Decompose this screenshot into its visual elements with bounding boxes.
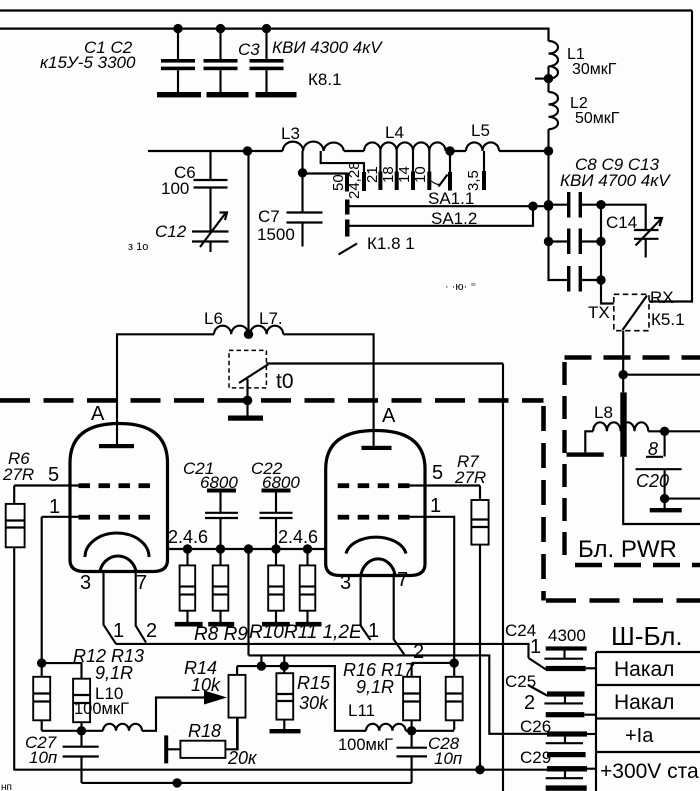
contact bar tap 18 [395, 172, 399, 191]
chassis dashed boundary vertical [541, 406, 546, 601]
tube V2 envelope [326, 431, 425, 576]
node C28 junction [407, 726, 416, 735]
svg-text:7: 7 [397, 569, 408, 591]
ground bar R15 [270, 729, 301, 733]
wire C24 feed diagonal [529, 658, 547, 670]
resistor R6 [6, 486, 25, 771]
svg-text:SA1.2: SA1.2 [431, 209, 477, 228]
tube V1 grid1 dashes [79, 515, 151, 520]
svg-text:6800: 6800 [200, 473, 238, 492]
contact bar tap 24,28 [362, 172, 366, 191]
wire SA1.1 line [347, 205, 549, 207]
node SA1.1 end [528, 202, 537, 211]
wire t0 down lead [246, 379, 248, 416]
ground bar L8 [567, 452, 604, 456]
node tank right junction [544, 146, 553, 155]
wire cathode down riser [247, 549, 249, 655]
contact bar SA1.2 [345, 220, 350, 237]
svg-text:К5.1: К5.1 [651, 310, 685, 329]
wire grid2 riser to R12R13 [41, 517, 43, 663]
svg-text:L4: L4 [385, 123, 404, 142]
svg-text:К1.8 1: К1.8 1 [367, 234, 415, 253]
wire L6 L7 riser [247, 151, 249, 334]
svg-text:R15: R15 [297, 673, 331, 693]
svg-text:RX: RX [650, 288, 674, 307]
svg-text:L8: L8 [594, 403, 613, 422]
svg-text:1500: 1500 [257, 225, 295, 244]
chassis dashed boundary bottom right [546, 598, 700, 603]
node cathode R10 [271, 544, 280, 553]
svg-text:10п: 10п [434, 749, 463, 768]
capacitor C28 [397, 731, 428, 783]
chassis dashed boundary horizontal [0, 398, 544, 403]
node L4 L5 junction [445, 146, 454, 155]
ground bar t0 [228, 416, 263, 421]
svg-text:27R: 27R [454, 468, 486, 487]
feedthrough capacitor C25 [544, 691, 584, 717]
svg-text:2: 2 [524, 692, 535, 714]
wire L3 to L4 [344, 150, 364, 152]
wire PWR top out [623, 374, 700, 376]
inductor L2 [549, 92, 559, 151]
capacitor C22 [260, 489, 293, 550]
contact bar tap 50 [345, 173, 349, 192]
capacitor C14 variable [634, 218, 662, 258]
resistor R14 [229, 666, 246, 749]
svg-text:Бл. PWR: Бл. PWR [578, 536, 677, 563]
wire R16 R17 top link [412, 662, 455, 664]
resistor R15 [276, 666, 293, 729]
node SA1.1 rail [544, 202, 553, 211]
svg-text:9,1R: 9,1R [356, 677, 394, 697]
svg-text:2.4.6: 2.4.6 [278, 527, 318, 547]
wire heater line 1 [116, 644, 529, 658]
wire plus300V bus [14, 769, 547, 771]
ground bar R11 [296, 622, 322, 627]
svg-text:ТХ: ТХ [588, 303, 610, 322]
svg-text:6800: 6800 [262, 473, 300, 492]
tube V1 heater arc [100, 556, 136, 571]
svg-text:50: 50 [330, 174, 347, 191]
svg-text:+300V ста: +300V ста [600, 760, 699, 783]
wire top bus line 1 [0, 9, 692, 11]
wire bias vertical x503 [502, 364, 504, 791]
wire cathode bus [166, 548, 326, 550]
node R7 bus [475, 765, 484, 774]
tube V2 grid2 dashes [338, 483, 410, 488]
svg-text:10п: 10п [29, 748, 58, 767]
svg-text:L6: L6 [204, 309, 223, 328]
node C9 right [596, 237, 605, 246]
node C9 left [544, 237, 553, 246]
contact bar tap 7 [448, 172, 452, 191]
node R17 top [450, 658, 459, 667]
node L6 L7 [244, 330, 253, 339]
svg-text:L3: L3 [281, 124, 300, 143]
wire R12 R13 top link [42, 663, 82, 679]
svg-text:24,28: 24,28 [346, 161, 363, 199]
svg-text:30мкГ: 30мкГ [572, 61, 617, 78]
svg-text:10k: 10k [191, 675, 221, 695]
wire right border down to RX [649, 11, 692, 302]
svg-text:С20: С20 [636, 471, 669, 491]
svg-text:Накал: Накал [614, 658, 674, 681]
feedthrough capacitor C26 [546, 731, 587, 757]
wire tap 50 riser and line [298, 151, 347, 178]
svg-text:Ш-Бл.: Ш-Бл. [611, 621, 683, 651]
thermal switch box t0 [229, 350, 266, 388]
svg-text:A: A [382, 405, 396, 427]
svg-text:L5: L5 [471, 121, 490, 140]
ground bar under C2 [207, 92, 249, 97]
transformer L8 core [620, 392, 626, 456]
contact bar tap 14 [411, 172, 415, 191]
wire tap 18 [396, 151, 398, 172]
svg-text:2: 2 [146, 620, 157, 642]
contact bar R18 [164, 735, 168, 763]
transformer L8 winding [593, 422, 648, 431]
node junction C1 [173, 24, 182, 33]
wire C20 out right [665, 498, 700, 500]
svg-text:R8 R9: R8 R9 [194, 624, 248, 645]
svg-text:к15У-5 3300: к15У-5 3300 [40, 53, 136, 72]
capacitor C20 [636, 431, 682, 498]
node junction C2 [216, 24, 225, 33]
switch arm K5.1 [623, 296, 648, 331]
resistor R10 [268, 549, 284, 622]
resistor R8 [180, 549, 196, 622]
svg-text:4300: 4300 [548, 626, 586, 645]
wire top bus line 2 [0, 29, 549, 41]
wire SA1.2 line [347, 206, 533, 226]
svg-text:100: 100 [161, 179, 189, 198]
tube V1 cathode arc [85, 533, 149, 557]
node ground bus [172, 778, 181, 787]
svg-text:50мкГ: 50мкГ [575, 110, 620, 127]
wiper arrow R14 [204, 691, 227, 705]
node L1 L2 tap [535, 66, 553, 92]
svg-text:1: 1 [368, 620, 379, 642]
svg-text:7: 7 [136, 572, 147, 594]
wire C26 to box3 [587, 733, 596, 735]
resistor R17 [446, 663, 463, 730]
wire C8 right rail [600, 205, 602, 280]
wire heater line 2 [249, 655, 548, 733]
wire tap 3,5 [483, 151, 485, 171]
resistor R16 [403, 663, 420, 731]
wire TX lead [601, 280, 614, 304]
svg-text:С12: С12 [155, 222, 187, 241]
resistor R11 [300, 549, 316, 622]
node cathode R8 [183, 544, 192, 553]
svg-text:27R: 27R [2, 465, 34, 484]
contact bar tap 3,5 [482, 171, 486, 190]
svg-text:Накал: Накал [614, 691, 674, 714]
node cathode R11 [303, 544, 312, 553]
wire tap 24,28 [321, 151, 364, 172]
svg-text:1: 1 [49, 496, 60, 518]
svg-text:1: 1 [530, 636, 541, 658]
tube V1 envelope [70, 424, 168, 572]
inductor L3 [283, 142, 344, 151]
svg-text:21: 21 [364, 166, 381, 183]
resistor R7 [471, 486, 488, 771]
wire capacitor ground bus [82, 782, 412, 784]
ground bar R10 [262, 622, 290, 627]
ground bar under C3 [256, 92, 297, 97]
ground bar C20 [650, 499, 682, 513]
node cathode R9 [216, 544, 225, 553]
svg-text:L11: L11 [348, 701, 375, 720]
capacitor C3 [250, 29, 284, 92]
svg-text:КВИ 4300 4кV: КВИ 4300 4кV [272, 38, 383, 57]
wire pin5 line [14, 484, 78, 486]
svg-text:20к: 20к [227, 748, 258, 768]
ground bar R8 [175, 622, 203, 627]
wire to C14 [601, 205, 646, 229]
svg-text:з 1о: з 1о [128, 241, 148, 253]
capacitor C12 variable [192, 213, 229, 253]
wire C24 to box1 [586, 667, 596, 669]
node C13 right [596, 275, 605, 284]
svg-text:L7.: L7. [259, 309, 283, 328]
wire tube V2 grid1 out [410, 517, 455, 663]
svg-text:100мкГ: 100мкГ [338, 736, 393, 754]
svg-text:С7: С7 [258, 207, 280, 226]
switch arm K1.8 [339, 244, 358, 255]
wire tube V2 pin3 [361, 573, 371, 640]
node cathode center [244, 544, 253, 553]
ground bar under C1 [157, 92, 201, 97]
svg-text:3,5: 3,5 [465, 170, 482, 191]
wire tap 10 [428, 151, 430, 172]
wire C29 to box4 [587, 768, 596, 770]
wire tap 21 [379, 151, 381, 172]
svg-text:t0: t0 [276, 370, 294, 393]
tube V2 anode plate [362, 446, 392, 450]
node C27 junction [77, 726, 86, 735]
inductor L10 [103, 724, 142, 731]
resistor R9 [213, 549, 229, 622]
inductor L7 [250, 326, 283, 335]
wire L11 to R16 R17 [406, 730, 455, 732]
tube V1 anode plate [99, 444, 134, 448]
svg-text:5: 5 [48, 464, 59, 486]
svg-text:SA1.1: SA1.1 [428, 189, 474, 208]
svg-text:С14: С14 [606, 213, 637, 232]
inductor L1 [549, 41, 559, 79]
capacitor C6 [194, 151, 228, 231]
node line2 stub B [280, 655, 289, 670]
inductor L6 [214, 326, 248, 335]
svg-text:R10R11 1,2Е: R10R11 1,2Е [249, 622, 362, 643]
wire tap 7 [449, 151, 451, 172]
connector box rows [596, 652, 700, 791]
wire main tank line [148, 150, 283, 152]
wire tube V2 pin7 [394, 573, 405, 655]
wire C25 feed diagonal [528, 685, 547, 696]
tube V2 grid1 dashes [338, 515, 410, 520]
wire L8 winding left [585, 431, 593, 452]
feedthrough capacitor C29 [546, 766, 587, 791]
svg-text:3: 3 [80, 572, 91, 594]
svg-text:С26: С26 [520, 717, 551, 736]
switch arm t0 [239, 364, 268, 383]
node R12 R13 top [37, 658, 46, 667]
svg-text:С3: С3 [238, 40, 260, 59]
feedthrough capacitor C24 [544, 646, 586, 671]
wire pin1 line [42, 516, 79, 518]
capacitor C7 [287, 174, 323, 247]
wire C8 left rail [549, 151, 569, 280]
svg-text:1: 1 [113, 620, 124, 642]
contact bar tap 21 [378, 172, 382, 191]
wire C25 to box2 [584, 714, 596, 716]
node junction C3 [262, 24, 271, 33]
svg-text:9,1R: 9,1R [95, 663, 133, 683]
svg-text:A: A [91, 403, 105, 425]
wire L4 to L5 [446, 150, 466, 152]
capacitor C13 [567, 266, 601, 292]
wire L5 to C8 rail [499, 150, 549, 152]
svg-text:2: 2 [413, 641, 424, 663]
tube V1 grid2 dashes [79, 483, 151, 488]
svg-text:КВИ 4700 4кV: КВИ 4700 4кV [560, 171, 671, 190]
wire tap 14 [412, 151, 414, 172]
svg-text:К8.1: К8.1 [308, 70, 342, 89]
switch wiper mark SA1.1 [439, 175, 448, 187]
resistor R18 [168, 718, 238, 758]
svg-text:3: 3 [340, 572, 351, 594]
capacitor C8 [549, 192, 602, 218]
inductor L5 [466, 142, 499, 151]
svg-text:+Iа: +Iа [625, 725, 654, 747]
inductor L11 [366, 724, 406, 731]
inductor L4 [364, 142, 445, 151]
svg-text:2.4.6: 2.4.6 [168, 527, 208, 547]
capacitor C9 [549, 229, 602, 255]
tube V2 cathode arc [346, 537, 406, 553]
wire tube V1 pin3 [104, 570, 117, 644]
tube V2 heater arc [361, 559, 395, 575]
node PWR input [619, 370, 628, 379]
contact bar tap 10 [427, 172, 431, 191]
capacitor C21 [205, 489, 238, 550]
wire tube V2 grid2 out [410, 484, 481, 486]
wire L7 to tube2 anode [283, 334, 373, 446]
svg-text:нп: нп [1, 782, 12, 791]
node L8 winding right [660, 427, 669, 436]
svg-text:R18: R18 [188, 721, 221, 741]
resistor R12 [33, 663, 50, 731]
node C6 riser junction [243, 146, 252, 155]
svg-text:30k: 30k [299, 693, 329, 713]
wire L8 core lead down [623, 375, 700, 524]
relay box K5.1 [614, 294, 649, 330]
capacitor C2 [204, 29, 238, 92]
svg-text:5: 5 [432, 462, 443, 484]
capacitor C1 [161, 29, 195, 92]
wire K5.1 to PWR [622, 331, 624, 375]
wire R14 R15 top line [237, 666, 366, 731]
node C8 left [544, 200, 553, 209]
node t0 chassis [243, 396, 253, 406]
node C20 bottom [660, 494, 669, 503]
node C8 right [596, 200, 605, 209]
resistor R13 [73, 679, 90, 731]
node line2 stub A [257, 655, 266, 670]
wire L8 right out [648, 430, 700, 432]
svg-text:С29: С29 [520, 748, 551, 767]
capacitor C27 [63, 731, 99, 783]
wire t0 to bias line [266, 362, 503, 364]
wire tube V1 pin7 [136, 570, 146, 643]
svg-text:18: 18 [380, 166, 397, 183]
svg-text:1: 1 [430, 495, 441, 517]
ground bar R9 [208, 622, 234, 627]
PWR block dashed box [565, 358, 700, 566]
svg-text:100мкГ: 100мкГ [74, 700, 129, 718]
contact bar SA1.1 [345, 200, 350, 215]
wire R12 R13 bottom bus [42, 730, 103, 732]
svg-text:· ·ю· ⁼: · ·ю· ⁼ [445, 281, 476, 293]
wire anode link line [117, 334, 214, 444]
svg-text:14: 14 [396, 166, 413, 183]
wire L10 to R14 arrow [142, 698, 204, 731]
